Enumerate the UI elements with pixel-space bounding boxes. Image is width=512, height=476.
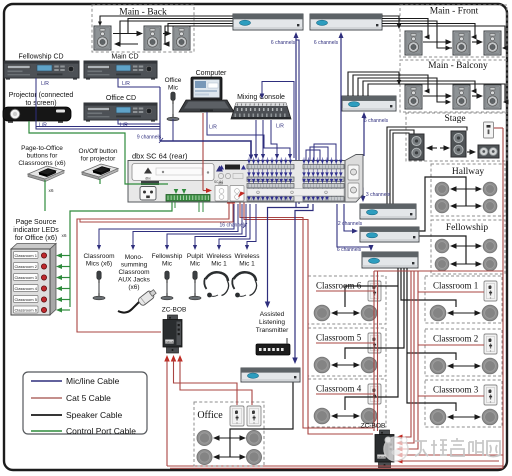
wire: mic/line laptop to dbx: [207, 112, 290, 155]
ceiling speaker fellowship SW: [435, 257, 449, 271]
svg-text:Fellowship: Fellowship: [446, 223, 488, 233]
wire: cat5 trunk right side riser: [502, 128, 504, 468]
svg-text:Mono-: Mono-: [125, 254, 143, 261]
green arrows into LED panel: [62, 255, 70, 257]
wire: speaker cable Classroom 3: [450, 416, 478, 418]
svg-text:Projector (connected: Projector (connected: [9, 92, 74, 99]
svg-text:Office CD: Office CD: [106, 95, 136, 102]
ceiling speaker Classroom 4 right: [361, 408, 377, 424]
wall plate office 1: [230, 406, 244, 426]
svg-text:Office: Office: [165, 77, 182, 84]
wire: mic/line console outputs to dbx: [255, 120, 257, 155]
wire: 6 channels mic/line to balcony amp: [363, 115, 365, 156]
stage speaker cabinet center: [451, 131, 466, 157]
zone box Classroom 4: [308, 379, 386, 427]
stage speaker horizontal cabinet: [478, 145, 499, 158]
svg-text:6 channels: 6 channels: [337, 247, 362, 253]
wall plate office 2: [247, 406, 261, 426]
fellowship microphone: [161, 271, 173, 300]
legend control port: [31, 430, 62, 432]
wire: cat5 horizontal feed above classrooms: [374, 270, 503, 272]
wire: cat5 bottom bus: [167, 465, 503, 467]
button pad page-to-office: [28, 166, 64, 182]
dbx red patch arrow: [238, 192, 245, 198]
svg-text:Classroom 1: Classroom 1: [433, 281, 478, 291]
speaker Main-Balcony left: [405, 85, 422, 109]
wire: cat5 ZC-BOB office drops: [166, 359, 168, 466]
speaker Main-Balcony right: [484, 85, 501, 109]
wireless headset mic 2: [232, 272, 256, 297]
svg-text:Fellowship: Fellowship: [152, 253, 183, 260]
ceiling speaker fellowship NW: [435, 239, 449, 253]
zone box Main-Front: [400, 5, 507, 57]
assisted listening transmitter device: [256, 338, 290, 355]
svg-text:L/R: L/R: [209, 125, 217, 131]
projector device: [3, 107, 71, 123]
ceiling speaker Classroom 3 right: [482, 409, 498, 425]
wall plate Classroom 4: [368, 384, 381, 404]
svg-text:Classroom 5: Classroom 5: [14, 297, 37, 302]
svg-text:Classroom 5: Classroom 5: [316, 333, 362, 343]
wire: speaker cable hallway: [419, 177, 482, 231]
wire: mic/line bus to classroom mics: [99, 204, 234, 246]
wire: control port projector to on/off button: [29, 121, 168, 184]
svg-text:Mic 1: Mic 1: [211, 261, 227, 268]
laptop computer: [179, 77, 234, 112]
svg-text:Main - Front: Main - Front: [430, 7, 479, 17]
wire: cat5 dbx to office ZC-BOB: [77, 201, 229, 332]
svg-text:Classroom 3: Classroom 3: [433, 385, 479, 395]
dbx white mid band: [247, 189, 344, 196]
wall plate Classroom 3: [484, 385, 497, 405]
svg-text:Mic: Mic: [162, 261, 173, 268]
svg-text:zcbob: zcbob: [377, 455, 385, 459]
svg-text:indicator LEDs: indicator LEDs: [13, 227, 59, 234]
speaker Main-Front right: [484, 31, 501, 55]
svg-text:AUX Jacks: AUX Jacks: [118, 277, 151, 284]
svg-text:Hallway: Hallway: [452, 167, 484, 177]
svg-text:6 channels: 6 channels: [364, 118, 389, 124]
wire: speaker cable bundle amp to Main-Front: [382, 16, 508, 51]
speaker Main-Front left: [405, 31, 422, 55]
svg-text:L/R: L/R: [122, 81, 130, 87]
aux jack plug icon: [118, 288, 157, 313]
pulpit microphone: [189, 271, 201, 300]
dbx wiring grid verticals: [249, 158, 341, 201]
wire: cat5 to classroom 3 plate: [418, 395, 484, 397]
svg-text:(x6): (x6): [128, 284, 139, 291]
office microphone: [167, 92, 179, 121]
wire: speaker cable Classroom 5: [334, 364, 357, 366]
ceiling speaker hallway SW: [435, 199, 449, 213]
wire: mic/line office CD to bus: [118, 119, 160, 124]
amplifier classrooms 6ch: [362, 252, 418, 268]
wire: cat5 to classroom 5 plate: [316, 342, 374, 344]
svg-text:L/R: L/R: [41, 81, 49, 87]
wire: mic/line main CD to bus: [118, 78, 160, 87]
svg-text:3 channels: 3 channels: [366, 192, 391, 198]
svg-text:Cat 5 Cable: Cat 5 Cable: [66, 393, 111, 403]
wire: mic/line source bus vertical: [159, 87, 161, 141]
svg-text:Computer: Computer: [196, 70, 227, 77]
svg-text:Mic 1: Mic 1: [239, 261, 255, 268]
svg-text:for Office (x6): for Office (x6): [15, 235, 57, 242]
svg-text:Page-to-Office: Page-to-Office: [21, 145, 63, 152]
wire: cat5 dbx to classroom ZC-BOB b: [244, 201, 373, 434]
svg-text:L/R: L/R: [276, 124, 284, 130]
zone box Main-Balcony: [400, 60, 507, 112]
wire: 3 channels mic/line to stage amp: [358, 188, 363, 198]
ZC-BOB breakout box office: [163, 315, 182, 353]
wire: cat5 verticals to ZC-BOB: [401, 271, 411, 437]
wire: cat5 to classroom 1 plate: [418, 291, 484, 293]
svg-text:Stage: Stage: [444, 114, 465, 124]
wire: mic/line bus to pulpit mic: [195, 204, 246, 246]
svg-text:for projector: for projector: [81, 156, 117, 163]
amplifier balcony: [342, 96, 396, 111]
wire: 6 channels mic/line to amp main-back: [295, 38, 297, 207]
wire: cat5 to classroom 2 plate: [418, 344, 484, 346]
svg-text:Mics (x6): Mics (x6): [86, 261, 112, 268]
svg-text:Control Port Cable: Control Port Cable: [66, 426, 136, 436]
zone box Classroom 3: [425, 380, 502, 427]
ceiling speaker Classroom 4 left: [314, 408, 330, 424]
wire: control port dbx to LED panel: [70, 202, 172, 307]
wire: cat5 bottom feed to ZC-BOB: [401, 460, 499, 462]
svg-text:buttons for: buttons for: [27, 153, 59, 160]
red arrows into ZC-BOB classrooms: [396, 435, 403, 440]
ceiling speaker Classroom 2 right: [482, 358, 498, 374]
svg-text:Fellowship CD: Fellowship CD: [18, 54, 63, 61]
legend speaker: [31, 414, 62, 416]
speaker Main-Front center: [453, 31, 470, 55]
zone box Fellowship: [431, 220, 505, 274]
ceiling speaker Classroom 6 right: [361, 305, 377, 321]
wire: mic/line bus to aux jacks: [133, 204, 238, 246]
wire: mic/line projector audio to bus: [36, 121, 160, 127]
svg-text:Mic/line Cable: Mic/line Cable: [66, 376, 120, 386]
svg-text:Classroom: Classroom: [83, 253, 114, 260]
legend mic/line: [31, 380, 62, 382]
svg-text:Classroom 2: Classroom 2: [14, 264, 37, 269]
wall plate Classroom 6: [368, 281, 381, 301]
svg-text:Wireless: Wireless: [235, 253, 261, 260]
wire: speaker cable fellowship: [419, 236, 482, 267]
wire: cat5 to classroom 6 plate: [316, 290, 374, 292]
svg-text:Classroom 2: Classroom 2: [433, 334, 478, 344]
svg-text:Classrooms (x6): Classrooms (x6): [18, 160, 65, 167]
wire: mic/line office mic + 9 channels bus: [172, 119, 174, 141]
wire: mic/line to office amp: [295, 204, 313, 359]
amplifier hallway-fellowship 2ch: [360, 227, 419, 242]
svg-text:Mic: Mic: [190, 261, 201, 268]
wire: speaker cable bundle Main-Back to amplifier: [98, 16, 233, 44]
wire: mic/line into console top: [262, 82, 294, 159]
svg-text:2 channels: 2 channels: [338, 221, 363, 227]
wire: speaker cable Classroom 1: [450, 312, 478, 314]
wire: cat5 dbx to classroom ZC-BOB a: [240, 201, 373, 428]
zone box Stage: [406, 113, 507, 161]
svg-text:Page Source: Page Source: [16, 219, 57, 226]
ceiling speaker fellowship NE: [483, 239, 497, 253]
dbx blue input arrows: [247, 160, 342, 201]
wire: speaker cable trunk classrooms: [345, 268, 456, 411]
svg-text:Classroom 4: Classroom 4: [316, 384, 362, 394]
ceiling speaker office NW: [197, 431, 212, 446]
speaker Main-Back center: [144, 26, 161, 50]
ceiling speaker Classroom 2 left: [430, 358, 446, 374]
wall plate Classroom 5: [368, 333, 381, 353]
wire: mic/line loops over dbx: [306, 150, 320, 160]
svg-text:dbx SC 64 (rear): dbx SC 64 (rear): [132, 152, 188, 161]
zone box Main-Back: [92, 5, 194, 52]
svg-text:Office: Office: [197, 410, 223, 421]
svg-text:On/Off button: On/Off button: [79, 148, 118, 155]
svg-text:Speaker Cable: Speaker Cable: [66, 410, 123, 420]
svg-text:Pulpit: Pulpit: [187, 253, 203, 260]
wire: cat5 verticals left classroom column: [373, 271, 375, 431]
amplifier main-front: [310, 14, 382, 30]
red arrow laptop cat5 into dbx: [202, 113, 204, 191]
zone box Classroom 6: [308, 276, 386, 324]
watermark logo: [384, 437, 408, 461]
wire: parallel mic/line run: [296, 40, 299, 204]
svg-text:Assisted: Assisted: [260, 311, 285, 318]
svg-text:x6: x6: [48, 188, 53, 194]
svg-text:Classroom: Classroom: [118, 269, 149, 276]
speaker Main-Balcony center: [453, 85, 470, 109]
svg-text:Classroom 3: Classroom 3: [14, 275, 37, 280]
dbx SC 64 rear panel unit: [128, 155, 363, 203]
zone box Classroom 5: [308, 328, 386, 376]
wire: speaker cable Classroom 4: [334, 415, 357, 417]
ceiling speaker office NE: [247, 431, 262, 446]
CD player Main: [84, 61, 157, 80]
wire: 6 channels mic/line to classroom amp: [337, 204, 371, 249]
svg-text:to screen): to screen): [25, 100, 56, 107]
svg-text:L/R: L/R: [120, 123, 128, 129]
ceiling speaker Classroom 6 left: [314, 305, 330, 321]
button pad on/off projector: [82, 164, 118, 180]
mixing console: [231, 103, 291, 119]
wire: speaker cable arrows Main-Back: [113, 31, 172, 47]
wire: mic/line to transmitter: [268, 204, 309, 303]
svg-text:summing: summing: [121, 262, 148, 269]
green arrows into dbx strip: [174, 189, 179, 194]
svg-text:6 channels: 6 channels: [271, 40, 296, 46]
watermark text: [415, 438, 500, 457]
wall plate stage: [484, 122, 494, 138]
wire: speaker cable Classroom 6: [334, 312, 357, 314]
ZC-BOB breakout box classrooms: [375, 430, 394, 468]
svg-text:zcbob: zcbob: [165, 340, 173, 344]
wireless headset mic 1: [204, 272, 228, 297]
wire: 2 channels mic/line to hallway amp: [344, 204, 353, 231]
ceiling speaker Classroom 5 right: [361, 357, 377, 373]
speaker Main-Back left: [94, 26, 111, 50]
wire: cat5 to classroom 4 plate: [316, 393, 374, 395]
svg-text:Listening: Listening: [259, 319, 285, 326]
classroom microphone: [93, 271, 105, 300]
wire: control strip stubs: [198, 202, 200, 212]
wire: mic/line bus to fellowship mic: [167, 204, 242, 246]
wire: cat5 stage plate to right riser: [494, 127, 503, 129]
svg-text:Main - Balcony: Main - Balcony: [428, 61, 488, 71]
amplifier main-back: [233, 14, 303, 30]
svg-text:Main CD: Main CD: [111, 54, 138, 61]
amplifier stage 3ch: [360, 204, 416, 219]
red arrows into office ZC-BOB bottom: [164, 355, 170, 362]
svg-text:Classroom 1: Classroom 1: [14, 253, 37, 258]
svg-text:x6: x6: [61, 233, 66, 239]
speaker Main-Back right: [173, 26, 190, 50]
svg-text:dbx: dbx: [145, 177, 151, 181]
wire: speaker cable Classroom 2: [450, 365, 478, 367]
svg-text:Classroom 6: Classroom 6: [14, 307, 37, 312]
svg-text:Transmitter: Transmitter: [256, 327, 289, 334]
wire: speaker cable bundle balcony amp to speakers: [348, 72, 509, 105]
CD player Fellowship: [4, 61, 79, 80]
svg-text:Classroom 4: Classroom 4: [14, 286, 37, 291]
ceiling speaker office SE: [247, 450, 262, 465]
wire: 6 channels mic/line to amp main-front: [340, 38, 342, 160]
zone box Office: [194, 402, 264, 466]
zone box Hallway: [431, 164, 505, 216]
svg-text:L/R: L/R: [39, 123, 47, 129]
svg-text:6 channels: 6 channels: [314, 40, 339, 46]
LED indicator panel: [11, 244, 56, 316]
wire: control port on/off button stub: [99, 179, 101, 184]
legend cat5: [31, 397, 62, 399]
stage speaker cabinet left: [409, 134, 424, 160]
ceiling speaker fellowship SE: [483, 257, 497, 271]
zone box Classroom 1: [425, 276, 502, 323]
svg-text:SC 64: SC 64: [214, 180, 223, 184]
legend box: [23, 372, 147, 434]
ceiling speaker Classroom 5 left: [314, 357, 330, 373]
ceiling speaker hallway NE: [483, 182, 497, 196]
wire: mic/line bus to wireless mic 2: [247, 204, 256, 246]
ceiling speaker hallway SE: [483, 199, 497, 213]
wall plate Classroom 1: [484, 281, 497, 301]
wire: mic/line bus to wireless mic 1: [219, 204, 250, 246]
amplifier office: [241, 368, 300, 382]
wire: mic/line fellowship CD to bus: [36, 78, 160, 129]
ceiling speaker Classroom 1 right: [482, 305, 498, 321]
svg-text:Wireless: Wireless: [207, 253, 233, 260]
CD player Office: [84, 103, 157, 122]
svg-text:ZC-BOB: ZC-BOB: [162, 307, 187, 314]
svg-text:Mic: Mic: [168, 85, 179, 92]
wall plate Classroom 2: [484, 334, 497, 354]
ceiling speaker hallway NW: [435, 182, 449, 196]
ceiling speaker Classroom 1 left: [430, 305, 446, 321]
ceiling speaker Classroom 3 left: [430, 409, 446, 425]
wire: control port page button join: [44, 180, 46, 211]
wire: speaker cable bundle stage: [387, 127, 476, 204]
svg-text:9 channels: 9 channels: [137, 135, 162, 141]
wire: speaker cable office: [213, 382, 293, 460]
ceiling speaker office SW: [197, 450, 212, 465]
zone box Classroom 2: [425, 329, 502, 376]
